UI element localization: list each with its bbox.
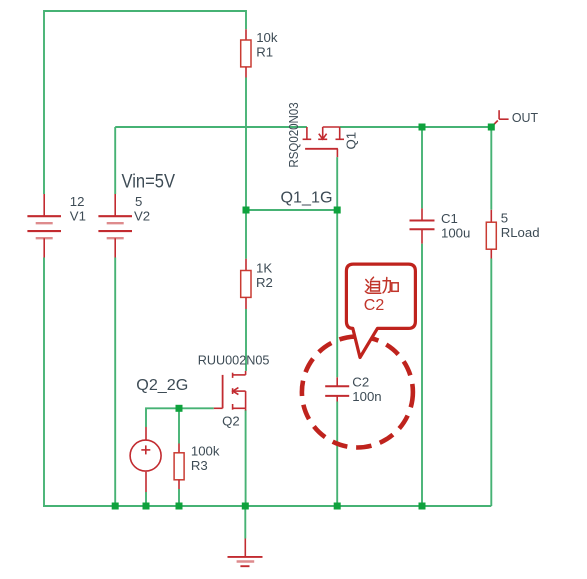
- svg-text:Q1_1G: Q1_1G: [281, 190, 333, 207]
- svg-text:100n: 100n: [352, 389, 381, 404]
- svg-text:12: 12: [70, 194, 85, 209]
- svg-text:V2: V2: [134, 209, 150, 224]
- svg-text:Q2: Q2: [222, 413, 240, 428]
- svg-text:OUT: OUT: [512, 110, 538, 125]
- svg-text:1K: 1K: [256, 260, 272, 275]
- svg-text:10k: 10k: [256, 30, 278, 45]
- svg-text:C1: C1: [441, 211, 458, 226]
- svg-text:R1: R1: [256, 44, 273, 59]
- svg-text:5: 5: [135, 194, 142, 209]
- svg-text:C2: C2: [364, 297, 385, 314]
- svg-text:100u: 100u: [441, 225, 470, 240]
- svg-text:100k: 100k: [191, 444, 220, 459]
- svg-text:Q1: Q1: [344, 132, 359, 150]
- svg-text:Vin=5V: Vin=5V: [122, 171, 176, 193]
- svg-text:C2: C2: [352, 374, 369, 389]
- svg-text:R3: R3: [191, 458, 208, 473]
- svg-text:Q2_2G: Q2_2G: [136, 377, 188, 394]
- svg-text:RLoad: RLoad: [501, 225, 540, 240]
- svg-text:RSQ020N03: RSQ020N03: [286, 102, 301, 167]
- svg-text:R2: R2: [256, 275, 273, 290]
- svg-text:V1: V1: [70, 209, 86, 224]
- svg-text:RUU002N05: RUU002N05: [198, 353, 270, 368]
- svg-text:5: 5: [501, 211, 508, 226]
